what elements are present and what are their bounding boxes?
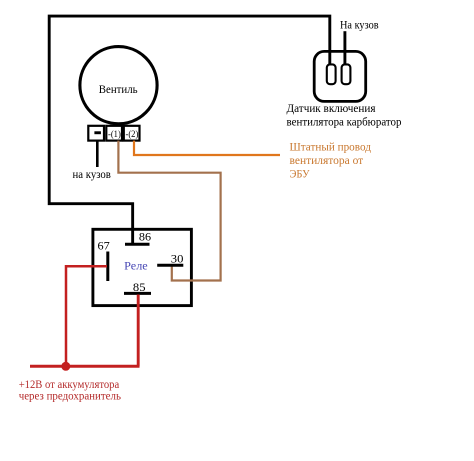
svg-text:ЭБУ: ЭБУ bbox=[290, 169, 311, 181]
relay pin 67 bar bbox=[106, 252, 109, 282]
svg-text:вентилятора от: вентилятора от bbox=[290, 155, 364, 167]
sensor housing: Датчик включения вентилятора bbox=[314, 51, 366, 101]
relay pin 85 bar bbox=[124, 292, 151, 295]
wire: relay pin 85 to +12V bus (red) bbox=[137, 295, 140, 367]
fan connector pin "-" box bbox=[88, 126, 104, 141]
svg-text:Штатный провод: Штатный провод bbox=[290, 142, 372, 154]
fan motor M1 (Вентиль) bbox=[80, 47, 157, 124]
relay pin 30 bar bbox=[157, 264, 183, 267]
wire: ECU stock fan wire from fan pin 2 (orange) bbox=[134, 141, 280, 155]
svg-text:Реле: Реле bbox=[124, 261, 148, 273]
sensor pin 2 bbox=[342, 64, 351, 84]
relay pin 86 bar bbox=[125, 243, 150, 246]
svg-text:86: 86 bbox=[139, 230, 151, 244]
fan connector pin "(1)" box bbox=[106, 126, 122, 141]
svg-text:На кузов: На кузов bbox=[340, 20, 379, 32]
fan connector pin "(2)" box bbox=[124, 126, 140, 141]
svg-text:85: 85 bbox=[133, 280, 146, 294]
relay K1 body bbox=[93, 229, 191, 305]
wire: +12V bus from battery (red) bbox=[30, 365, 140, 368]
svg-text:30: 30 bbox=[171, 251, 184, 265]
svg-text:-(1): -(1) bbox=[108, 129, 121, 140]
wire: net from sensor pin 1 to relay coil pin 86 (black) bbox=[49, 16, 330, 244]
wire: sensor pin 2 to body ground (black) bbox=[343, 31, 346, 64]
wire: fan minus pin to body ground (black) bbox=[96, 141, 99, 167]
junction: +12V node dot bbox=[61, 362, 70, 371]
svg-text:Вентиль: Вентиль bbox=[99, 82, 138, 96]
svg-text:-(2): -(2) bbox=[126, 129, 139, 140]
sensor pin 1 bbox=[327, 64, 336, 84]
svg-text:на кузов: на кузов bbox=[73, 169, 111, 181]
svg-text:Датчик включения: Датчик включения bbox=[287, 101, 377, 115]
wire: fan pin 1 to relay contact pin 30 (tan/brown) bbox=[118, 141, 220, 281]
wire: +12V feed to relay pin 67 (red) bbox=[66, 266, 107, 366]
pin label: "-" (minus dash) bbox=[94, 131, 101, 134]
svg-text:вентилятора карбюратор: вентилятора карбюратор bbox=[287, 116, 402, 128]
svg-text:67: 67 bbox=[98, 239, 110, 253]
svg-text:через предохранитель: через предохранитель bbox=[19, 388, 122, 402]
